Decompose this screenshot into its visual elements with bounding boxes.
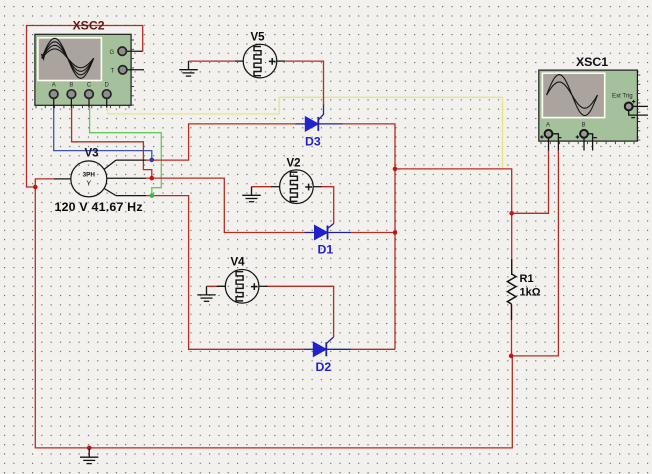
voltage source V2 <box>271 158 322 204</box>
wire: R1 bottom node to XSC1 A- <box>511 150 558 356</box>
resistor R1 <box>511 259 513 320</box>
wire: V5 lead into D3 cathode (navy) <box>318 105 323 124</box>
wire: V4 minus to ground <box>207 285 226 287</box>
svg-text:D1: D1 <box>318 243 334 257</box>
wire: V2 minus to ground <box>252 186 272 188</box>
wire: V3 top node to D3 anode <box>146 124 296 160</box>
wire: bus to R1 top <box>395 169 512 213</box>
oscilloscope XSC2 <box>35 19 144 109</box>
voltage source V4 <box>217 257 268 304</box>
junction bus top <box>393 167 398 172</box>
diode D2 <box>313 342 331 374</box>
wire: V5 minus to ground <box>189 60 235 62</box>
svg-text:A: A <box>52 83 56 89</box>
ground for V2 <box>242 187 260 202</box>
wire: XSC2 channel C (green) to V3 bottom node <box>90 107 162 195</box>
oscilloscope XSC1 <box>539 55 648 151</box>
svg-text:D: D <box>105 83 110 89</box>
svg-text:B: B <box>69 83 73 89</box>
wire: V2 plus down to D1 cathode <box>322 187 334 224</box>
svg-text:V5: V5 <box>251 32 266 44</box>
diode D1 <box>315 225 334 256</box>
wire: XSC2 channel A (blue) to V3 top node <box>54 107 152 159</box>
svg-text:XSC2: XSC2 <box>72 19 104 33</box>
wire: left rail down to bottom rail and up to R1 bottom <box>35 187 512 448</box>
voltage source V5 <box>235 32 286 78</box>
wire: V5 plus down to D3 cathode node <box>286 61 324 105</box>
ground bottom rail <box>80 449 98 464</box>
ground for V4 <box>197 286 215 301</box>
svg-text:120 V 41.67 Hz: 120 V 41.67 Hz <box>55 200 143 214</box>
wire: V3 bottom node to D2 anode <box>146 196 303 350</box>
wire: R1 top lead <box>511 213 513 274</box>
junction R1 top <box>509 211 514 216</box>
wire: V3 mid node to D1 anode <box>146 178 305 232</box>
svg-text:XSC1: XSC1 <box>576 55 608 69</box>
wire: R1 bottom lead <box>511 305 513 356</box>
svg-text:V3: V3 <box>85 148 99 160</box>
svg-text:V4: V4 <box>231 257 246 269</box>
wire: D1 anode stub <box>305 232 315 234</box>
node B (red) V3 mid <box>150 176 155 181</box>
svg-text:1kΩ: 1kΩ <box>520 287 541 299</box>
wire: V3 left input from junction <box>35 179 54 187</box>
three-phase source V3 <box>54 148 146 214</box>
svg-text:Ext Trig: Ext Trig <box>612 92 633 99</box>
svg-text:D2: D2 <box>316 360 332 374</box>
svg-text:C: C <box>87 83 92 89</box>
junction bus D1 <box>393 230 398 235</box>
svg-text:T: T <box>111 68 115 74</box>
svg-text:3PH: 3PH <box>83 172 96 179</box>
wire: R1 top node to XSC1 A+ <box>512 150 549 213</box>
wire: D3 anode stub <box>296 123 306 125</box>
wire: main bus vertical <box>394 169 396 349</box>
node C (green) V3 bottom <box>150 193 155 198</box>
wire: V4 plus down to D2 cathode <box>267 286 334 337</box>
svg-text:A: A <box>546 123 550 129</box>
junction R1 bottom <box>509 354 514 359</box>
wire: XSC2 G to left rail and V3 junction <box>27 26 143 188</box>
diode D3 <box>305 117 321 149</box>
svg-text:D3: D3 <box>305 135 321 149</box>
junction V3 left <box>33 185 38 190</box>
wire: XSC2 channel D (yellow) to bus right <box>108 97 503 169</box>
wire: XSC2 channel B (red) to V3 mid node <box>72 107 152 178</box>
svg-text:Y: Y <box>86 179 91 188</box>
wire: D1 cathode to bus <box>328 232 352 234</box>
junction bottom ground <box>87 446 92 451</box>
node A (blue) V3 top <box>150 158 155 163</box>
svg-text:R1: R1 <box>520 273 534 285</box>
svg-text:G: G <box>110 50 115 56</box>
wire: D3 cathode to bus <box>318 123 342 125</box>
wire: D2 cathode to bus <box>326 348 351 350</box>
wire: D2 anode stub <box>303 348 313 350</box>
ground for V5 <box>179 61 197 76</box>
svg-text:V2: V2 <box>287 158 301 170</box>
svg-text:B: B <box>582 123 586 129</box>
